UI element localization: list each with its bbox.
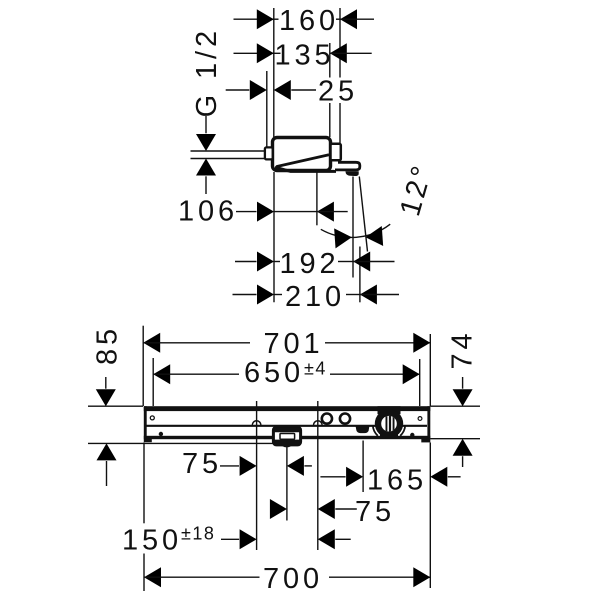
dimension 85 (vertical, left): [88, 377, 273, 486]
bar bottom border: [144, 436, 431, 439]
water stream vertical line (ref for 192 and 12deg): [352, 177, 354, 278]
dome on supply A: [252, 421, 261, 425]
dimension 75 (spout offset): [182, 448, 312, 480]
ring circle 1: [322, 414, 332, 424]
dimension G1/2 height (vertical, left of fixture): [191, 116, 266, 194]
extension line: step right edge up (ref for 160): [339, 8, 341, 143]
svg-text:165: 165: [367, 465, 427, 497]
label 85 (rotated): [92, 325, 124, 365]
svg-text:85: 85: [92, 325, 124, 365]
wall connection tab: [265, 147, 273, 159]
dimension 650 +-4: [153, 357, 420, 389]
dimension 25: [226, 75, 358, 107]
extension line: spout outlet centre (ref for 106): [316, 173, 318, 226]
12 degree angle arc: [321, 224, 390, 237]
extension line: body right edge up (ref for 135): [329, 43, 331, 137]
spout arm: [334, 162, 360, 170]
extension line B: spout centre: [286, 447, 288, 521]
dome on supply C: [314, 421, 323, 425]
knob recess arc left: [373, 426, 378, 436]
extension line: 650 left: [152, 358, 154, 406]
label G 1/2 (rotated): [191, 27, 223, 117]
dimension 150 +-18: [122, 524, 351, 557]
svg-text:106: 106: [178, 196, 238, 228]
extension line: tab left face (ref for 25): [266, 71, 268, 147]
extension line: 650 right: [419, 359, 421, 406]
svg-text:700: 700: [263, 563, 323, 595]
svg-text:210: 210: [285, 281, 345, 313]
dimension 75 (supply spacing half): [270, 496, 395, 528]
svg-text:650: 650: [244, 357, 304, 389]
knob outer: [378, 406, 401, 414]
bar right foot: [421, 439, 430, 442]
svg-text:25: 25: [318, 75, 358, 107]
extension line D: 165 left ref: [362, 441, 364, 493]
dimension 106: [178, 196, 348, 228]
extension line: body left edge up (ref for 160/135): [273, 8, 275, 137]
dimension 165: [320, 465, 460, 497]
arc arrow right: [365, 226, 383, 247]
body slanted bottom edge: [275, 167, 336, 171]
bar body: [144, 406, 431, 442]
svg-text:74: 74: [447, 329, 479, 369]
svg-text:135: 135: [274, 40, 334, 72]
dimension 74 (vertical, right): [430, 377, 480, 467]
bar left foot: [144, 439, 152, 442]
knob inner: [381, 416, 397, 432]
ring circle 2: [340, 414, 350, 424]
fixture body: [273, 138, 331, 171]
svg-text:G 1/2: G 1/2: [191, 27, 223, 117]
dimension 135: [234, 40, 372, 72]
svg-text:±18: ±18: [181, 524, 215, 544]
small circle left end: [150, 416, 154, 420]
label 12deg (rotated): [394, 160, 439, 220]
small dot right of knob: [410, 433, 414, 437]
extension line E: bar right edge down: [429, 443, 431, 589]
step block at body top right: [331, 144, 341, 161]
extension line: outermost projection (ref for 210): [359, 247, 361, 303]
extension line: bar left edge down (broken at 150 text): [143, 443, 145, 524]
svg-text:160: 160: [279, 5, 339, 37]
select button blob: [356, 426, 370, 433]
lever wedge line inside body: [276, 155, 329, 167]
dimension 701: [143, 328, 430, 360]
arc arrow left: [334, 227, 352, 248]
svg-text:75: 75: [355, 496, 395, 528]
knob grip bars: [386, 414, 395, 434]
dimension 160: [234, 5, 375, 37]
svg-text:192: 192: [279, 248, 339, 280]
knob recess arc right: [400, 426, 405, 436]
tiny circle right end: [418, 417, 422, 421]
spout box under bar: [273, 427, 300, 447]
bar top border: [144, 406, 431, 411]
dimension 192: [235, 248, 395, 280]
supply centreline A (hot): [256, 401, 258, 550]
svg-text:150: 150: [122, 525, 182, 557]
supply centreline C (cold): [317, 401, 319, 550]
svg-text:75: 75: [182, 448, 222, 480]
extension line: bar left edge up (ref 701): [142, 326, 144, 406]
svg-text:±4: ±4: [304, 359, 327, 379]
small dot left end: [159, 432, 163, 436]
bar right edge: [427, 406, 430, 439]
dimension 700: [144, 563, 430, 595]
aerator under spout tip: [345, 171, 358, 176]
bar left edge: [144, 406, 147, 439]
extension line: body left edge down (ref for 106/192/210): [273, 172, 275, 302]
water stream slanted line (12deg): [359, 177, 367, 252]
svg-text:701: 701: [263, 328, 323, 360]
label 74 (rotated): [447, 329, 479, 369]
extension line: bar right edge up (ref 701): [429, 334, 431, 406]
dimension 210: [233, 281, 400, 313]
bar mid line: [146, 425, 427, 427]
